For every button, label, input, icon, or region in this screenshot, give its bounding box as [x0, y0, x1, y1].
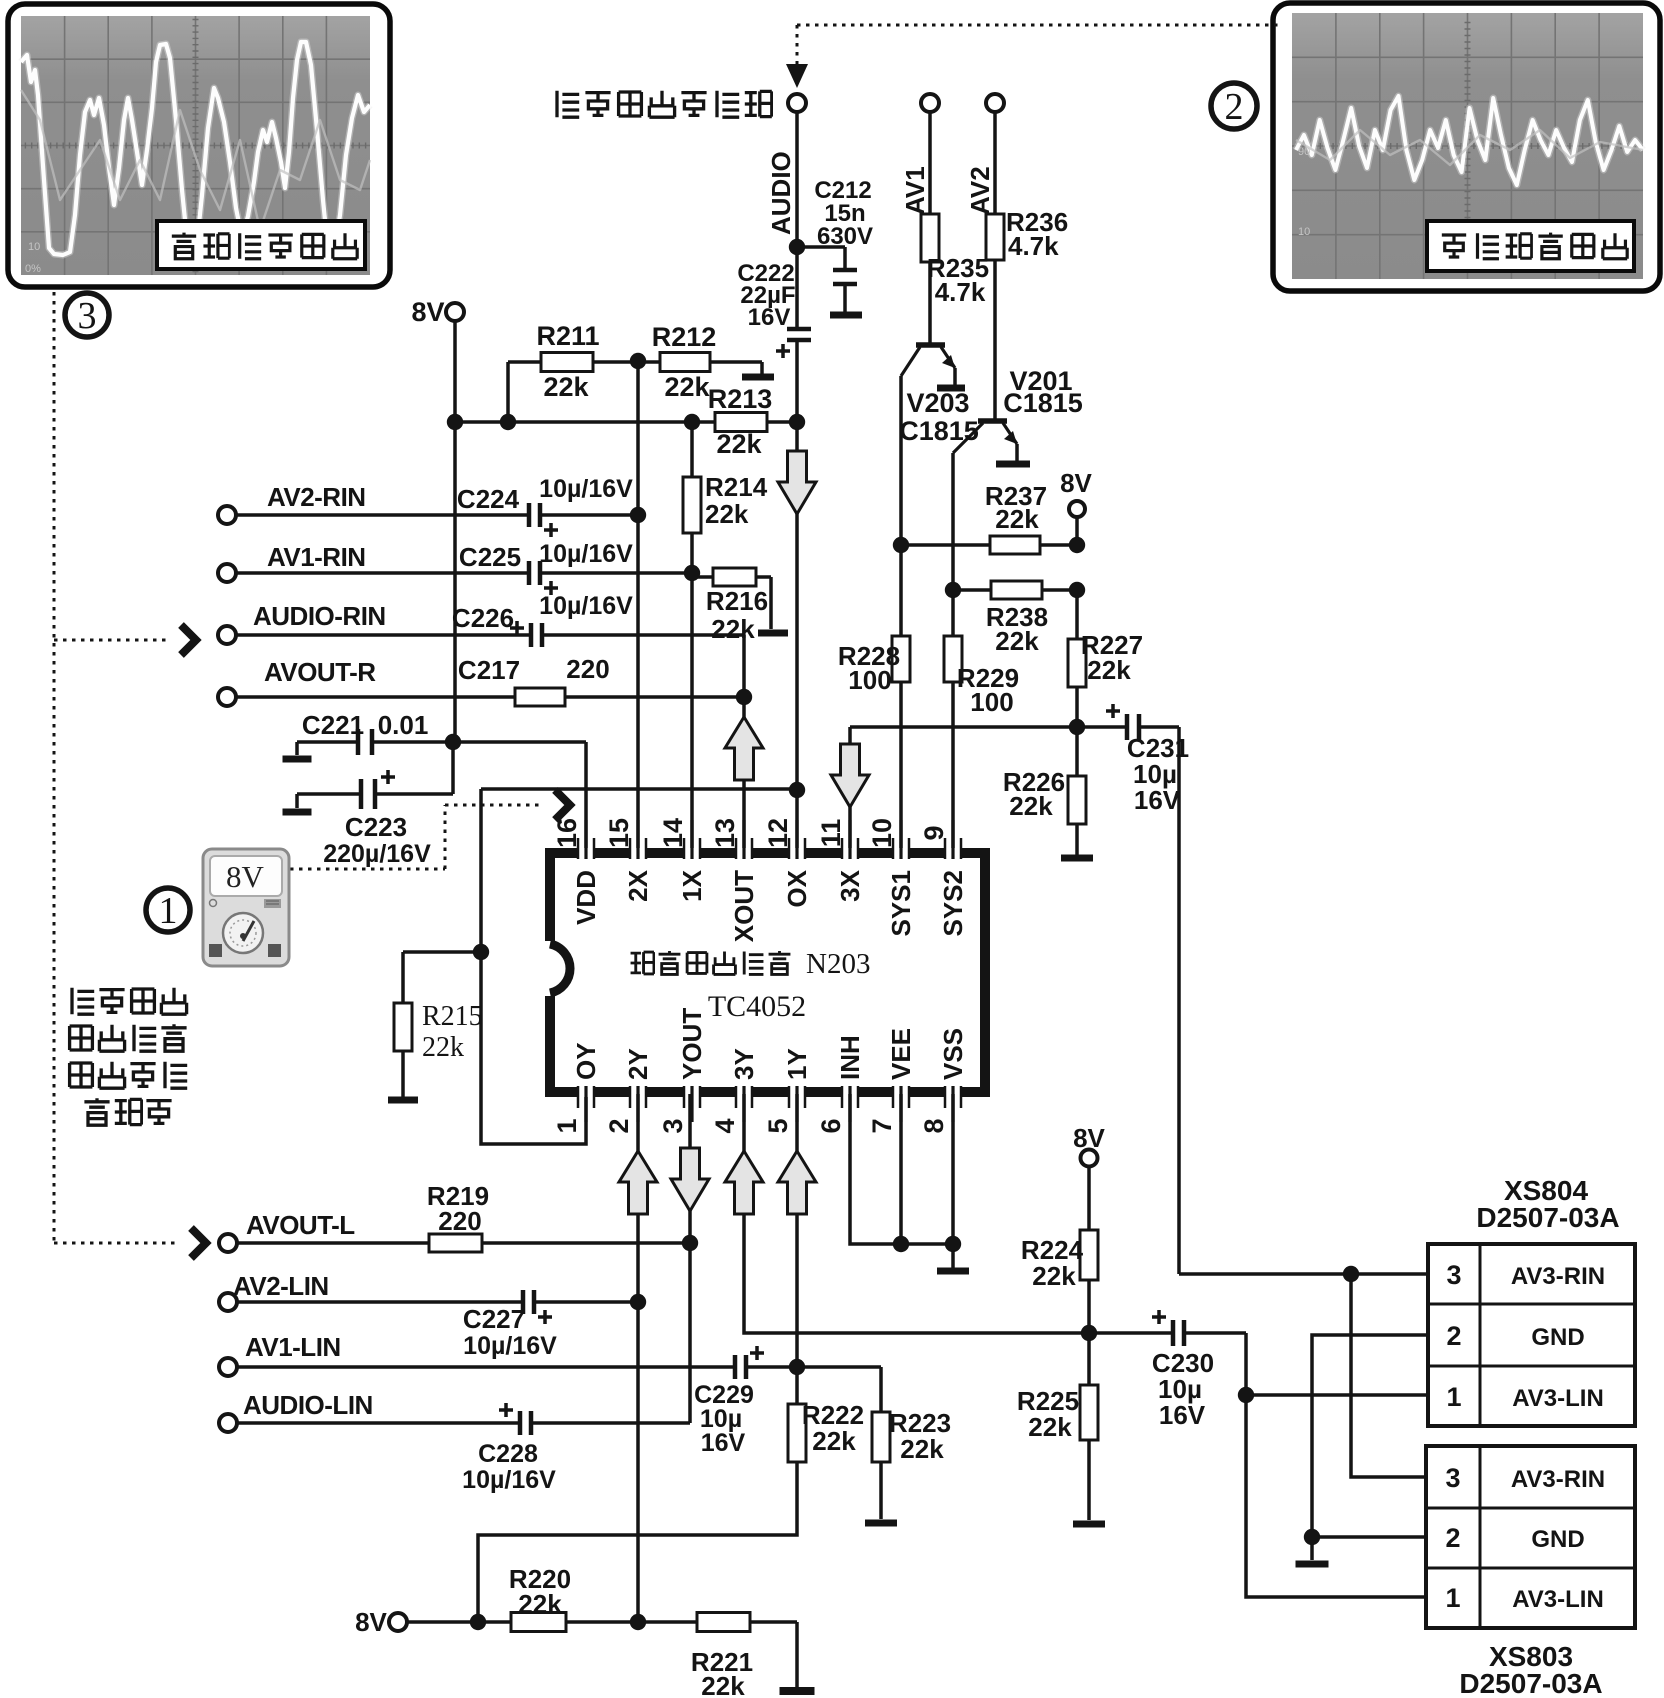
node R237/8V [1069, 537, 1085, 553]
svg-text:AV3-RIN: AV3-RIN [1511, 1263, 1605, 1290]
svg-text:8: 8 [919, 1118, 949, 1133]
svg-text:D2507-03A: D2507-03A [1476, 1202, 1619, 1233]
svg-text:AUDIO-RIN: AUDIO-RIN [253, 601, 386, 631]
svg-text:C221: C221 [302, 710, 364, 740]
svg-text:12: 12 [763, 818, 793, 848]
resistor R224 22k [1080, 1230, 1098, 1280]
wire AV3-LIN to XS803 [1246, 1395, 1426, 1597]
resistor R219 220 [429, 1234, 482, 1252]
svg-text:VDD: VDD [571, 870, 601, 925]
node rowA/R211 [500, 414, 516, 430]
wire AV1-RIN [236, 571, 529, 575]
dotted branch to AVOUT-L [54, 1242, 176, 1245]
node R238/R227 [1069, 582, 1085, 598]
wire AV2 to R236 [993, 112, 997, 214]
wire C230 down [1244, 1333, 1248, 1395]
pin 14 (1X) slot [684, 848, 700, 859]
wire up to R211 [506, 362, 510, 422]
svg-text:22k: 22k [812, 1426, 856, 1456]
terminal AV2-RIN [218, 506, 236, 524]
wire 3X row [850, 725, 1077, 729]
svg-text:1Y: 1Y [782, 1048, 812, 1080]
terminal AV1-RIN [218, 564, 236, 582]
svg-text:220: 220 [438, 1206, 481, 1236]
node SYS2/R238 [945, 582, 961, 598]
svg-text:10µ/16V: 10µ/16V [539, 475, 633, 503]
wire OY wrap around [481, 789, 586, 1144]
svg-text:AV1-LIN: AV1-LIN [245, 1332, 341, 1362]
resistor R215 22k [394, 1003, 412, 1051]
capacitor C230 [1171, 1320, 1176, 1346]
svg-text:R215: R215 [422, 1001, 483, 1032]
ground C221 [283, 756, 312, 763]
resistor C217 220 [515, 688, 565, 706]
wire AVOUT-L [237, 1241, 429, 1245]
svg-text:16V: 16V [1134, 785, 1181, 815]
svg-text:10: 10 [867, 818, 897, 848]
wire to R215 [403, 950, 481, 954]
svg-text:100: 100 [970, 687, 1013, 717]
svg-text:22k: 22k [995, 504, 1039, 534]
svg-text:C223: C223 [345, 812, 407, 842]
svg-text:10: 10 [1298, 226, 1310, 238]
wire to C212 [797, 245, 845, 249]
svg-text:0.01: 0.01 [378, 710, 429, 740]
wire C231 to XS804 AV3-RIN [1177, 727, 1181, 1274]
svg-text:3Y: 3Y [729, 1048, 759, 1080]
wire to R223 [797, 1365, 881, 1369]
svg-text:C226: C226 [452, 603, 514, 633]
svg-text:VSS: VSS [938, 1028, 968, 1080]
svg-text:9: 9 [919, 825, 949, 840]
wire GND XS804 [1312, 1335, 1428, 1560]
terminal 8V right [1081, 1150, 1098, 1167]
svg-text:630V: 630V [817, 223, 873, 250]
wire 2Y column down [636, 1094, 640, 1622]
pin 2 (2Y) slot [630, 1086, 646, 1097]
ground C223 [283, 809, 312, 816]
block arrow up into 2Y [619, 1151, 657, 1214]
ground R226 [1061, 855, 1093, 862]
svg-text:C1815: C1815 [1003, 388, 1083, 418]
resistor R222 22k [788, 1404, 806, 1462]
svg-text:14: 14 [658, 818, 688, 848]
pin 13 (XOUT) slot [736, 848, 752, 859]
svg-text:AVOUT-R: AVOUT-R [264, 657, 376, 687]
callout circle 3 [65, 293, 109, 337]
svg-text:OX: OX [782, 869, 812, 907]
svg-text:10µ/16V: 10µ/16V [539, 540, 633, 568]
node C225/1X/R216 [684, 565, 700, 581]
node 8V/R222 return [470, 1614, 486, 1630]
pin 4 (3Y) slot [736, 1086, 752, 1097]
wire R229 to pin9 [951, 682, 955, 851]
wire OX column pin12 [795, 340, 799, 851]
node R211/R212/2X [630, 353, 646, 369]
wire AV1 to R235 [928, 112, 932, 214]
connector XS803 D2507-03A [1426, 1446, 1635, 1628]
svg-text:R214: R214 [705, 472, 768, 502]
node SYS1/R237 [893, 537, 909, 553]
node C221/C223/VDD [445, 734, 461, 750]
node rowA/OX column [789, 414, 805, 430]
svg-text:8V: 8V [226, 859, 265, 894]
svg-text:VEE: VEE [886, 1028, 916, 1080]
terminal AUDIO-LIN [219, 1414, 237, 1432]
svg-text:AV3-LIN: AV3-LIN [1512, 1586, 1604, 1613]
svg-text:SYS1: SYS1 [886, 870, 916, 937]
wire 3X column pin11 [848, 727, 852, 851]
resistor R236 [986, 214, 1004, 260]
node rowA/1X [684, 414, 700, 430]
svg-text:SYS2: SYS2 [938, 870, 968, 937]
node OX/wrap [789, 782, 805, 798]
terminal AVOUT-R [218, 688, 236, 706]
node C227/2Y [630, 1294, 646, 1310]
svg-text:C1815: C1815 [899, 416, 979, 446]
block arrow up from XOUT [725, 717, 763, 780]
pin 7 (VEE) slot [893, 1086, 909, 1097]
svg-text:1: 1 [1445, 1583, 1460, 1613]
svg-text:7: 7 [867, 1118, 897, 1133]
wire V203 collector to SYS1 [899, 376, 903, 545]
node VSS [945, 1236, 961, 1252]
block arrow down into 3X [831, 744, 869, 807]
resistor R237 22k [990, 536, 1040, 554]
pin 3 (YOUT) slot [684, 1086, 700, 1097]
node C229/1Y/R222 [789, 1359, 805, 1375]
resistor R211 22k [541, 353, 593, 372]
svg-text:1X: 1X [677, 869, 707, 901]
terminal 8V bottom [389, 1613, 407, 1631]
svg-text:R216: R216 [706, 586, 768, 616]
terminal AV2 [986, 94, 1004, 112]
svg-text:8V: 8V [411, 297, 444, 327]
svg-text:GND: GND [1531, 1324, 1584, 1351]
svg-text:3: 3 [78, 295, 97, 337]
wire AV3-LIN to XS804 [1246, 1393, 1428, 1397]
wire INH column to ground [850, 1094, 953, 1244]
pin 10 (SYS1) slot [893, 848, 909, 859]
svg-text:22k: 22k [664, 372, 710, 402]
svg-text:2X: 2X [623, 869, 653, 901]
node R220/2Y [630, 1614, 646, 1630]
resistor R227 22k [1068, 639, 1086, 687]
svg-text:TC4052: TC4052 [708, 990, 806, 1023]
svg-text:AV3-RIN: AV3-RIN [1511, 1466, 1605, 1493]
svg-text:6: 6 [816, 1118, 846, 1133]
pin 6 (INH) slot [842, 1086, 858, 1097]
svg-text:13: 13 [710, 818, 740, 848]
terminal AUDIO-RIN [218, 626, 236, 644]
svg-text:100: 100 [848, 665, 891, 695]
wire AV2-RIN [236, 513, 529, 517]
wire C223 up to node [451, 742, 455, 794]
IC title 音频切换开关 N203 [631, 952, 654, 974]
svg-text:220µ/16V: 220µ/16V [323, 840, 431, 868]
wire 1Y column down [795, 1094, 799, 1404]
svg-text:AV2-RIN: AV2-RIN [267, 482, 366, 512]
node AVOUT-R/XOUT [736, 689, 752, 705]
dotted arrow into AUDIO terminal [786, 64, 808, 88]
wire SYS1 column [899, 545, 903, 636]
svg-text:16V: 16V [701, 1429, 746, 1457]
IC N203 TC4052 audio switch [550, 853, 985, 1092]
node wrap/R215 [473, 944, 489, 960]
svg-text:AV2-LIN: AV2-LIN [233, 1271, 329, 1301]
wire R214 to pin14 [690, 533, 694, 851]
note 音频信号送往音频信号处理电路中 [72, 988, 94, 1014]
ground VEE/VSS/INH [937, 1268, 969, 1275]
svg-text:22k: 22k [518, 1589, 562, 1619]
pin 9 (SYS2) slot [945, 848, 961, 859]
wire R237 row [901, 543, 1077, 547]
oscilloscope photo 3 (audio output waveform) [8, 4, 390, 287]
svg-text:22k: 22k [422, 1032, 464, 1063]
resistor R214 22k [683, 477, 701, 533]
resistor R212 22k [660, 353, 710, 372]
terminal AV1-LIN [219, 1358, 237, 1376]
svg-text:R211: R211 [536, 321, 599, 351]
terminal AUDIO [788, 94, 806, 112]
callout circle 2 [1211, 83, 1257, 129]
wire AUDIO down [795, 112, 799, 244]
dotted branch to AUDIO-RIN [54, 639, 166, 642]
svg-text:11: 11 [816, 819, 846, 848]
resistor R221 22k [697, 1613, 750, 1632]
wire AUDIO-RIN to XOUT node [742, 635, 746, 697]
resistor R226 22k [1068, 776, 1086, 824]
svg-text:YOUT: YOUT [677, 1008, 707, 1080]
svg-text:22k: 22k [995, 626, 1039, 656]
wire AUDIO-LIN [237, 1421, 520, 1425]
IC notch [543, 941, 553, 996]
svg-text:22k: 22k [543, 372, 589, 402]
terminal AV1 [921, 94, 939, 112]
arrow to pin16 [555, 790, 570, 820]
ground R221 [780, 1687, 815, 1695]
svg-text:3: 3 [1446, 1260, 1461, 1290]
svg-text:2Y: 2Y [623, 1048, 653, 1080]
ground R223 [865, 1520, 897, 1527]
resistor R213 22k [715, 413, 767, 432]
capacitor C229 [733, 1355, 738, 1379]
node AV3-LIN [1238, 1387, 1254, 1403]
ground V203 emitter [937, 385, 965, 392]
svg-text:GND: GND [1531, 1526, 1584, 1553]
svg-text:2: 2 [1445, 1523, 1460, 1553]
ground R212 [742, 374, 774, 381]
svg-text:10: 10 [28, 241, 40, 253]
wire VSS column down [951, 1094, 955, 1244]
wire R235 to V203 base [928, 262, 932, 343]
resistor R235 [921, 214, 939, 262]
wire 8V to R224 [1087, 1167, 1091, 1230]
resistor R220 22k [511, 1613, 566, 1632]
svg-text:3X: 3X [835, 869, 865, 901]
svg-text:22k: 22k [711, 614, 755, 644]
svg-text:8V: 8V [355, 1607, 387, 1637]
svg-text:AV3-LIN: AV3-LIN [1512, 1385, 1604, 1412]
resistor R216 22k [713, 568, 756, 586]
wire YOUT column down [688, 1094, 692, 1423]
wire R222 to R220 node [478, 1462, 797, 1622]
svg-text:1: 1 [552, 1118, 582, 1133]
svg-text:AV2: AV2 [965, 166, 995, 215]
wire R221 to ground [795, 1622, 799, 1688]
wire OY wrap to OX [481, 787, 797, 791]
multimeter icon (8V reading) [203, 849, 289, 966]
svg-text:22k: 22k [900, 1434, 944, 1464]
capacitor C223 [359, 779, 364, 809]
svg-text:2: 2 [604, 1118, 634, 1133]
node C224/2X [630, 507, 646, 523]
svg-text:5: 5 [763, 1118, 793, 1133]
svg-text:8V: 8V [1060, 468, 1092, 498]
capacitor C212 [833, 268, 857, 273]
svg-text:22k: 22k [701, 1671, 745, 1698]
svg-text:2: 2 [1225, 86, 1244, 128]
wire 2X column pin15 [636, 361, 640, 851]
pin 15 (2X) slot [630, 848, 646, 859]
resistor R229 100 [944, 636, 962, 682]
block arrow down into OX [778, 451, 816, 514]
capacitor C222 [787, 327, 811, 332]
svg-text:C224: C224 [457, 484, 520, 514]
wire AVOUT-R [236, 695, 515, 699]
svg-text:4: 4 [710, 1118, 740, 1133]
svg-text:22k: 22k [1009, 791, 1053, 821]
wire GND to XS803 [1312, 1535, 1426, 1539]
wire R228 to pin10 [899, 682, 903, 851]
capacitor C231 [1125, 714, 1130, 740]
svg-text:2: 2 [1446, 1321, 1461, 1351]
ground R225 [1073, 1521, 1105, 1528]
ground R215 [388, 1097, 418, 1104]
svg-text:D2507-03A: D2507-03A [1459, 1668, 1602, 1698]
svg-text:N203: N203 [806, 948, 870, 980]
svg-text:3: 3 [1445, 1463, 1460, 1493]
svg-text:22k: 22k [1087, 655, 1131, 685]
node AUDIO/C212 [789, 239, 805, 255]
wire V201 collector to SYS2 [951, 453, 955, 590]
svg-text:22k: 22k [705, 499, 749, 529]
svg-text:1: 1 [1446, 1382, 1461, 1412]
pin 1 (OY) slot [578, 1086, 594, 1097]
svg-text:22k: 22k [1032, 1261, 1076, 1291]
wire VEE column down [899, 1094, 903, 1244]
node R224/R225/C230 row [1081, 1325, 1097, 1341]
wire R216 to ground [769, 577, 773, 629]
terminal AV2-LIN [219, 1293, 237, 1311]
terminal AVOUT-L [219, 1234, 237, 1252]
svg-text:C225: C225 [459, 542, 521, 572]
svg-text:90: 90 [1298, 146, 1310, 158]
dotted line to scope2 [797, 24, 1280, 27]
pin 16 (VDD) slot [578, 848, 594, 859]
ground R216 [758, 630, 788, 637]
node VEE/INH [893, 1236, 909, 1252]
callout circle 1 [146, 888, 190, 932]
wire R238 to R227 [1075, 590, 1079, 639]
capacitor C228 [518, 1411, 523, 1435]
ground C212 [830, 312, 862, 319]
resistor R238 22k [991, 581, 1042, 599]
wire XOUT column pin13 [742, 697, 746, 851]
svg-text:R213: R213 [708, 384, 773, 414]
svg-text:16V: 16V [748, 304, 791, 331]
svg-text:R212: R212 [652, 322, 717, 352]
node AVOUT-L/YOUT [682, 1235, 698, 1251]
label 音频信号输入端 (audio signal input) [557, 91, 579, 117]
node AV3-RIN tie [1343, 1266, 1359, 1282]
svg-text:AV1: AV1 [900, 166, 930, 215]
svg-text:C217: C217 [458, 655, 520, 685]
svg-text:16: 16 [552, 818, 582, 848]
wire AV3-RIN to XS804 [1179, 1272, 1428, 1276]
svg-text:AVOUT-L: AVOUT-L [246, 1210, 355, 1240]
wire R236 to V201 base [993, 260, 997, 419]
node R227/R226/C231 [1069, 719, 1085, 735]
arrow to AVOUT-L [191, 1228, 206, 1258]
capacitor C225 [527, 561, 532, 585]
pin 8 (VSS) slot [945, 1086, 961, 1097]
block arrow down from YOUT [671, 1148, 709, 1211]
wire 1X column upper [690, 422, 694, 477]
node 8V/rowA [447, 414, 463, 430]
wire node to C222 [795, 247, 799, 328]
dotted line from meter to VDD pin16 [290, 868, 445, 871]
svg-text:AUDIO: AUDIO [766, 151, 796, 235]
arrow to AUDIO-RIN [181, 625, 196, 655]
svg-text:XOUT: XOUT [729, 870, 759, 942]
transistor V201 C1815 [978, 418, 1007, 424]
scope3 label box [157, 221, 365, 269]
pin 11 (3X) slot [842, 848, 858, 859]
svg-text:10µ/16V: 10µ/16V [463, 1332, 557, 1360]
svg-text:C228: C228 [478, 1440, 538, 1468]
terminal 8V R237 [1069, 501, 1085, 517]
svg-text:0%: 0% [25, 263, 41, 275]
svg-text:AV1-RIN: AV1-RIN [267, 542, 366, 572]
svg-text:16V: 16V [1159, 1400, 1206, 1430]
svg-text:C227: C227 [463, 1304, 525, 1334]
resistor R228 100 [892, 636, 910, 682]
ground XS connectors [1296, 1561, 1329, 1568]
wire 3Y column to C230 row [744, 1094, 1173, 1333]
wire 8V bottom rail [407, 1620, 511, 1624]
wire SYS2 column [951, 590, 955, 636]
svg-text:15: 15 [604, 818, 634, 848]
transistor V203 C1815 [916, 342, 945, 348]
resistor R223 22k [872, 1412, 890, 1462]
svg-text:OY: OY [571, 1042, 601, 1080]
svg-text:4.7k: 4.7k [935, 277, 986, 307]
capacitor C226 [529, 623, 534, 647]
svg-text:AUDIO-LIN: AUDIO-LIN [243, 1390, 373, 1420]
node GND tie [1304, 1529, 1320, 1545]
wire AV2-LIN [237, 1300, 523, 1304]
wire row A [455, 420, 797, 424]
terminal 8V top-left [446, 303, 464, 321]
svg-text:3: 3 [658, 1118, 688, 1133]
wire R238 row [953, 588, 1077, 592]
pin 5 (1Y) slot [789, 1086, 805, 1097]
svg-text:10µ/16V: 10µ/16V [539, 592, 633, 620]
wire AUDIO-RIN [236, 633, 531, 637]
resistor R225 22k [1080, 1385, 1098, 1440]
wire AV3-RIN to XS803 [1351, 1274, 1426, 1477]
